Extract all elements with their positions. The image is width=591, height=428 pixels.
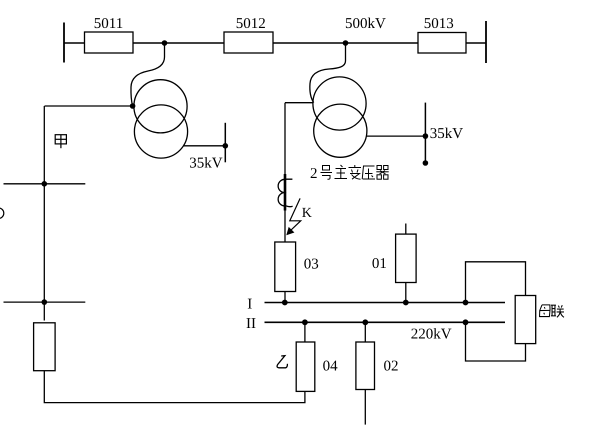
svg-text:5012: 5012 — [236, 16, 266, 32]
wire: horizontal stub into T2 primary — [285, 102, 314, 104]
junction dot bus coupler on bus I — [463, 300, 469, 306]
svg-text:5011: 5011 — [94, 16, 123, 32]
breaker 01 — [396, 234, 417, 282]
500kV bus right terminal bar — [485, 21, 487, 63]
junction dot B (bus to transformer 2) — [343, 40, 349, 46]
junction dot on tick 2 — [42, 299, 48, 305]
500kV bus left terminal bar — [63, 23, 65, 63]
breaker (left feeder) — [34, 323, 56, 371]
breaker 5013 — [418, 33, 466, 54]
junction dot on T1 35kV bar — [223, 143, 229, 149]
svg-text:I: I — [247, 297, 252, 313]
junction dot bus coupler on bus II — [463, 319, 469, 325]
svg-text:02: 02 — [384, 359, 399, 375]
wire: T2 LV lead vertical — [284, 103, 286, 242]
bus coupler breaker 母联 — [515, 296, 536, 344]
bus II — [265, 321, 506, 323]
svg-text:II: II — [246, 316, 256, 332]
wire: horizontal into T1 primary — [45, 105, 133, 107]
wire: T2 secondary output to 35kV bar — [366, 135, 425, 137]
svg-text:35kV: 35kV — [189, 156, 223, 172]
junction dot on tick 1 — [42, 181, 48, 187]
wire: bus I to coupler top loop — [466, 262, 526, 303]
breaker 5012 — [224, 32, 273, 53]
breaker 03 — [275, 242, 296, 292]
svg-text:03: 03 — [304, 257, 319, 273]
svg-text:01: 01 — [372, 256, 387, 272]
wire: bus II to coupler bottom loop — [466, 322, 526, 361]
wire: left feeder bottom run to breaker 04 — [44, 371, 305, 403]
35kV terminal bar of T2 — [424, 103, 426, 163]
junction dot C on T1 primary — [130, 103, 136, 109]
glyph 联 — [551, 305, 564, 317]
junction dot A (bus to transformer 1) — [162, 40, 168, 46]
500kV bus wire — [64, 42, 486, 44]
junction dot on T2 35kV bar — [423, 133, 429, 139]
wire: breaker 03 to bus I — [284, 292, 286, 303]
甲 bus tick 1 — [4, 183, 86, 185]
svg-text:35kV: 35kV — [430, 126, 464, 142]
svg-text:04: 04 — [323, 359, 339, 375]
wire: 甲 feeder vertical — [43, 106, 45, 321]
glyph 主 — [335, 165, 348, 179]
wire: stub above breaker 01 — [405, 224, 407, 235]
transformer T2 primary winding circle — [313, 77, 366, 130]
wire: breaker 01 to bus I — [405, 283, 407, 303]
35kV terminal bar of T1 — [224, 123, 226, 163]
glyph 变 — [349, 165, 362, 179]
label 甲 — [55, 135, 66, 149]
wire: bus II to breaker 04 — [304, 322, 306, 342]
label 母联 — [540, 305, 564, 317]
transformer T2 secondary winding circle — [314, 104, 367, 157]
junction dot breaker 02 on bus II — [362, 319, 368, 325]
bus I — [265, 302, 506, 304]
svg-text:220kV: 220kV — [411, 327, 452, 343]
wire: T1 secondary output to 35kV bar — [184, 145, 226, 147]
svg-text:2: 2 — [310, 166, 318, 182]
glyph 器 — [376, 166, 388, 180]
transformer T1 secondary winding circle — [134, 105, 187, 158]
svg-text:K: K — [302, 206, 312, 221]
reactor coil on T2 LV lead — [278, 179, 292, 206]
transformer T1 primary winding circle — [134, 80, 187, 133]
wire: stub below breaker 02 — [364, 390, 366, 425]
breaker 04 — [296, 342, 315, 391]
wire: bus II to breaker 02 — [364, 322, 366, 342]
glyph 压 — [362, 166, 375, 179]
breaker 02 — [356, 342, 375, 390]
甲 bus tick 2 — [4, 301, 86, 303]
wire: S-curve from dot A to transformer T1 — [131, 43, 165, 106]
clipped label at left edge — [0, 208, 4, 219]
svg-text:5013: 5013 — [424, 16, 454, 32]
wire: S-curve from dot B to transformer T2 — [310, 43, 346, 103]
fault arrow K — [290, 198, 301, 231]
label 2号主变压器 — [310, 165, 389, 182]
svg-text:500kV: 500kV — [345, 16, 386, 32]
glyph 号 — [321, 166, 333, 180]
junction dot breaker 03 on bus I — [282, 300, 288, 306]
junction dot breaker 04 on bus II — [302, 319, 308, 325]
label 乙 — [277, 356, 287, 368]
terminal dot at bottom of T2 35kV bar — [423, 160, 429, 166]
glyph 母 — [540, 305, 550, 317]
junction dot breaker 01 on bus I — [403, 300, 409, 306]
breaker 5011 — [85, 32, 134, 53]
